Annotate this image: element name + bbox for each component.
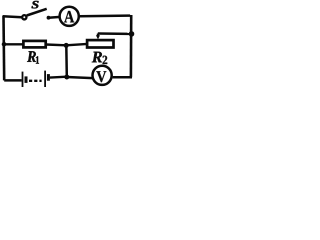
wire voltmeter to bottom-right corner [113,76,132,79]
wire top-left horizontal [3,16,22,17]
label S [32,1,39,8]
ammeter A [60,7,79,26]
wire bottom junction to voltmeter [67,77,93,78]
node left-middle junction [2,42,7,47]
switch fixed contact [47,16,51,20]
wire R1 to R2 [46,44,87,45]
wire ammeter to top-right corner [80,14,130,17]
battery dashes [29,80,42,82]
rheostat R2 wiper arrow [96,34,100,40]
switch S blade [27,9,47,16]
battery cell 1 short plate [25,76,28,83]
battery cell 1 long plate [22,72,24,87]
label R1 [27,51,39,63]
wire right vertical [130,15,133,77]
node middle junction [64,43,69,48]
label R2 [92,52,107,64]
voltmeter V [93,66,112,85]
node bottom junction [64,75,69,80]
wire left vertical [2,16,5,81]
wire battery to bottom junction [50,75,67,78]
switch S hinge [22,15,26,19]
wire middle vertical [65,45,68,76]
wire left junction to R1 [4,43,23,45]
wire switch to ammeter [49,16,59,19]
rheostat R2 body [87,40,113,47]
node right junction [129,31,135,37]
wire wiper horizontal [98,32,132,35]
battery cell 2 short plate [47,74,50,81]
wire bottom-left [4,79,21,82]
battery cell 2 long plate [44,71,46,87]
resistor R1 body [23,41,45,48]
